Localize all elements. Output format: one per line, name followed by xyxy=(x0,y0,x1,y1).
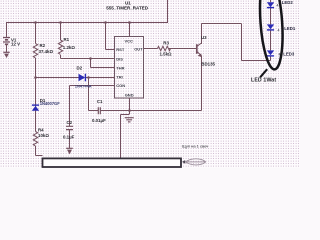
wire R2 bottom / left branch down to probe xyxy=(36,58,43,156)
svg-text:1.5kΩ: 1.5kΩ xyxy=(160,52,173,57)
wire TRI net through D2 xyxy=(36,77,116,79)
svg-text:10kΩ: 10kΩ xyxy=(38,133,49,138)
probe clip leaf outline xyxy=(185,159,205,165)
junction rail-R1 xyxy=(59,21,62,24)
svg-text:R4: R4 xyxy=(38,128,44,133)
capacitor C1 xyxy=(98,107,100,114)
label LED 1Wat xyxy=(251,77,276,83)
wire R1 bottom to DIS pin xyxy=(61,55,116,59)
svg-text:U3: U3 xyxy=(201,35,207,40)
ground below C2 xyxy=(66,148,73,154)
svg-text:R1: R1 xyxy=(64,37,70,42)
annotation ellipse tail xyxy=(260,69,267,77)
probe clip arrowhead xyxy=(182,160,185,164)
wire C1 drop from TRI net xyxy=(89,78,99,111)
transistor U3 BD135 xyxy=(197,43,202,56)
diode D2 xyxy=(79,74,86,82)
junction TRI-D2 branch xyxy=(34,76,37,79)
junction rail-R2 xyxy=(34,21,37,24)
svg-text:TRI: TRI xyxy=(116,75,122,80)
svg-text:THR: THR xyxy=(116,65,124,70)
svg-text:VCC: VCC xyxy=(125,38,134,43)
wire R2 top lead xyxy=(35,23,37,44)
wire top power rail xyxy=(6,22,168,24)
junction TRI-C1 xyxy=(87,76,90,79)
label D1 value xyxy=(40,98,61,106)
svg-text:R2: R2 xyxy=(40,43,46,48)
svg-text:1N4007GF: 1N4007GF xyxy=(40,101,61,106)
pin GND xyxy=(125,93,134,98)
wire DIS to THR tie xyxy=(91,59,116,68)
junction ground net at GND pin xyxy=(128,109,131,112)
svg-text:12 V: 12 V xyxy=(11,42,20,47)
label R2 value xyxy=(39,43,54,54)
svg-text:LED3: LED3 xyxy=(283,52,295,57)
resistor R1 xyxy=(58,40,62,55)
label R4 value xyxy=(38,128,49,139)
label R1 value xyxy=(63,37,76,50)
label probe (Cyrillic) xyxy=(182,144,208,149)
junction rail-VCC xyxy=(128,21,131,24)
svg-text:GND: GND xyxy=(125,93,134,98)
junction DIS-THR tie xyxy=(89,57,92,60)
junction rail-RST xyxy=(104,21,107,24)
label R3 value xyxy=(160,41,173,57)
wire R1 top lead xyxy=(60,23,62,41)
svg-text:4: 4 xyxy=(277,3,279,7)
pin THR xyxy=(116,65,124,70)
label V1 value xyxy=(11,37,20,46)
ground at IC GND pin xyxy=(125,118,134,122)
wire rail right end going up xyxy=(167,0,169,23)
label D2 value xyxy=(75,65,92,88)
wire probe pickup up to ground net xyxy=(121,115,130,159)
battery V1 xyxy=(3,38,10,53)
ground below V1 xyxy=(3,52,9,58)
pin TRI xyxy=(116,75,122,80)
capacitor C2 xyxy=(66,126,73,129)
resistor R4 xyxy=(33,132,37,146)
wire C2 bottom lead xyxy=(69,130,71,148)
label LED1 xyxy=(278,26,296,33)
transistor emitter arrow xyxy=(198,54,202,58)
svg-text:1N4744A: 1N4744A xyxy=(75,84,92,89)
wire IC GND stub xyxy=(129,98,131,114)
LED LED2 xyxy=(267,2,274,7)
op-amp/timer U1 555 box xyxy=(115,37,144,99)
svg-text:Щуп на 1 свеч: Щуп на 1 свеч xyxy=(182,144,208,149)
svg-text:0.01µF: 0.01µF xyxy=(92,118,106,123)
wire LED string xyxy=(270,0,272,61)
resistor R2 xyxy=(33,44,37,59)
wire R3 to base xyxy=(169,48,197,50)
pin OUT xyxy=(134,46,143,51)
wire OUT to R3 xyxy=(144,48,158,50)
pin VCC xyxy=(125,38,134,43)
wire rail to RST xyxy=(106,23,116,50)
svg-text:R3: R3 xyxy=(163,41,169,46)
label LED2 xyxy=(277,0,294,7)
svg-text:C1: C1 xyxy=(97,99,103,104)
wire ground net C1 to emitter xyxy=(100,110,201,112)
LED LED3 xyxy=(267,50,274,56)
svg-text:DIS: DIS xyxy=(116,56,123,61)
probe plate rectangle xyxy=(43,158,182,167)
svg-text:4: 4 xyxy=(278,29,280,33)
label C2 value xyxy=(63,120,75,139)
LED LED1 xyxy=(267,24,274,30)
diode D1 xyxy=(32,105,39,131)
svg-text:LED 1Wat: LED 1Wat xyxy=(251,77,276,83)
annotation ellipse around LEDs xyxy=(257,0,285,70)
svg-text:LED1: LED1 xyxy=(284,26,296,31)
label U1 xyxy=(106,1,148,11)
resistor R3 xyxy=(158,46,171,50)
wire collector up and over to LEDs xyxy=(202,24,271,61)
svg-text:OUT: OUT xyxy=(134,46,143,51)
pin CON xyxy=(116,83,125,88)
svg-text:C2: C2 xyxy=(67,120,73,125)
svg-text:BD135: BD135 xyxy=(201,61,215,66)
svg-text:LED2: LED2 xyxy=(282,0,294,5)
wire VCC stub xyxy=(129,23,131,37)
wire CON to C2 xyxy=(70,86,116,127)
svg-text:D2: D2 xyxy=(77,65,83,70)
wire V1 to rail xyxy=(6,23,8,38)
svg-text:1.2kΩ: 1.2kΩ xyxy=(63,45,76,50)
svg-text:555_TIMER_RATED: 555_TIMER_RATED xyxy=(106,6,148,11)
svg-text:CON: CON xyxy=(116,83,125,88)
label C1 value xyxy=(92,99,106,123)
svg-text:0.1µF: 0.1µF xyxy=(63,135,75,140)
pin RST xyxy=(116,47,125,52)
svg-text:RST: RST xyxy=(116,47,125,52)
label LED3 xyxy=(279,52,295,57)
pin DIS xyxy=(116,56,123,61)
wire emitter down to ground net xyxy=(201,56,203,111)
svg-text:37.4kΩ: 37.4kΩ xyxy=(39,49,54,54)
label U3 value xyxy=(201,35,216,66)
